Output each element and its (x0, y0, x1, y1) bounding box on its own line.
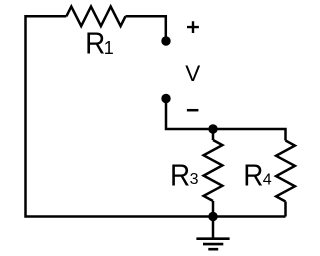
label R4 (243, 158, 272, 193)
svg-text:R: R (170, 158, 190, 193)
label R1 (85, 26, 114, 61)
node + terminal dot (161, 36, 170, 45)
wire ground stub (212, 217, 215, 239)
ground (196, 239, 229, 250)
wire R3 bottom stub (212, 201, 215, 217)
svg-text:V: V (185, 61, 200, 86)
wire left loop: top-left segment, left side, bottom rail (26, 16, 286, 216)
minus sign (187, 109, 199, 112)
svg-text:4: 4 (263, 171, 272, 188)
wire middle rail to R4 top (213, 129, 286, 141)
resistor R4 (276, 141, 295, 202)
wire R4 bottom stub (284, 202, 287, 217)
svg-text:R: R (85, 26, 105, 61)
resistor R1 (66, 7, 125, 27)
node junction bottom of R3 (208, 212, 217, 221)
svg-text:3: 3 (190, 171, 199, 188)
node - terminal dot (161, 94, 170, 103)
wire from R1 to + terminal (126, 16, 166, 41)
resistor R3 (204, 140, 223, 201)
label R3 (170, 158, 199, 193)
plus sign (187, 21, 199, 33)
wire R3 top stub (212, 129, 215, 140)
svg-text:R: R (243, 158, 263, 193)
svg-text:1: 1 (104, 38, 114, 58)
node junction top of R3 (208, 124, 217, 133)
wire from - terminal to middle rail (166, 99, 213, 130)
